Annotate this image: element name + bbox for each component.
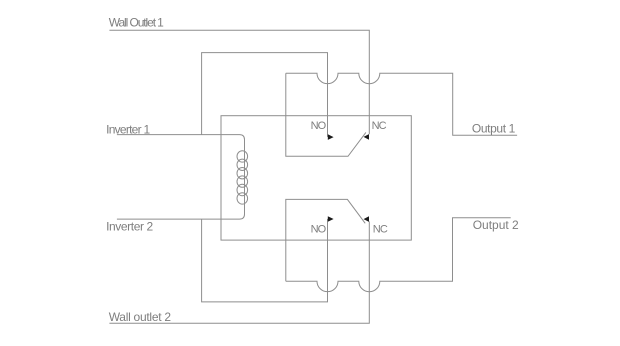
svg-text:Inverter 1: Inverter 1 <box>106 123 150 137</box>
svg-text:NC: NC <box>372 120 387 132</box>
coil L1 loop 1 <box>237 151 248 162</box>
wire common1 to Output 1 with hops <box>286 73 517 135</box>
coil L1 loop 2 <box>237 159 248 170</box>
coil L1 loop 6 <box>237 193 248 204</box>
svg-text:NO: NO <box>311 224 327 236</box>
coil L1 <box>240 135 245 220</box>
svg-text:Wall Outlet 1: Wall Outlet 1 <box>109 16 164 30</box>
svg-text:Output 2: Output 2 <box>473 218 519 232</box>
svg-text:Inverter 2: Inverter 2 <box>106 220 153 234</box>
svg-text:NC: NC <box>373 224 388 236</box>
wire Inverter 2 lead <box>117 218 240 220</box>
coil L1 loop 3 <box>237 168 248 179</box>
coil L1 loop 5 <box>237 184 248 195</box>
coil L1 loop 4 <box>237 176 248 187</box>
wire Inverter 1 to NO1 <box>202 53 328 137</box>
wire Wall outlet 2 to NC2 <box>109 221 369 323</box>
wire common2 to Output 2 with hops <box>286 218 511 292</box>
svg-text:NO: NO <box>311 120 327 132</box>
switch SW2 common arm <box>286 199 365 281</box>
wire Inverter 1 lead <box>117 134 240 136</box>
relay box K1 <box>221 116 411 240</box>
svg-text:Wall outlet 2: Wall outlet 2 <box>109 310 172 324</box>
wire Wall Outlet 1 to NC1 <box>109 30 369 134</box>
contact arrow NO1 <box>328 134 334 140</box>
contact arrow NC2 <box>364 216 370 222</box>
contact arrow NC1 <box>364 134 370 140</box>
switch SW1 common arm <box>286 73 366 156</box>
contact arrow NO2 <box>328 216 334 222</box>
wire Inverter 2 to NO2 <box>202 219 328 302</box>
svg-text:Output 1: Output 1 <box>472 122 516 136</box>
